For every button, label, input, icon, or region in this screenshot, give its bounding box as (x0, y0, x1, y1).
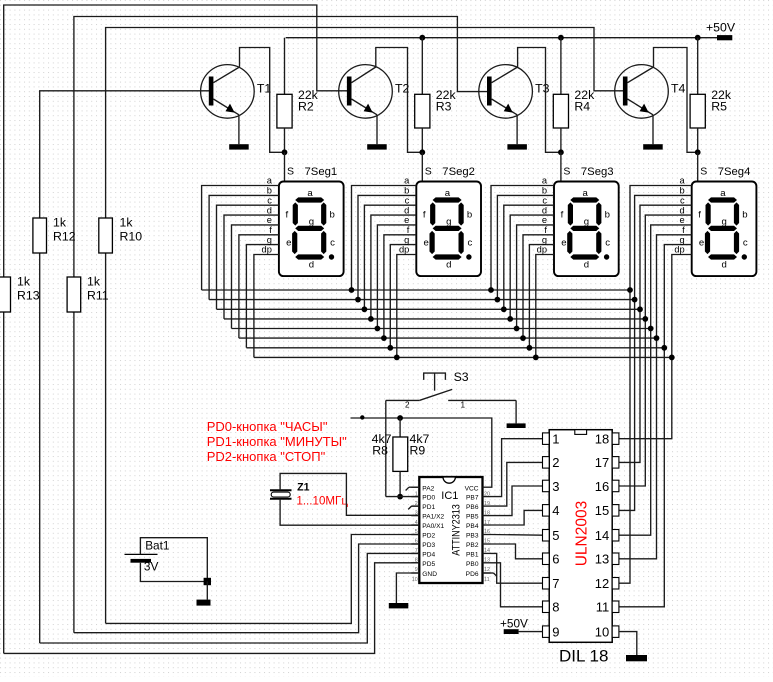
svg-text:5: 5 (552, 528, 559, 543)
svg-text:e: e (404, 215, 409, 225)
node bus dp / 7Seg3 (533, 355, 539, 361)
wire T4 emitter (652, 115, 654, 144)
svg-text:R2: R2 (298, 100, 314, 114)
node bus d / 7Seg2 (368, 316, 374, 322)
wire Bat1 minus (140, 563, 207, 582)
resistor R12 1k (33, 218, 47, 253)
svg-text:7Seg2: 7Seg2 (442, 166, 475, 178)
IC1 pin 16 PB4 (483, 524, 491, 526)
node rail-R4 (558, 35, 564, 41)
ULN pin 9 (543, 626, 550, 638)
svg-text:R13: R13 (17, 289, 40, 303)
svg-text:e: e (680, 215, 685, 225)
wire ULN pin10 to ground (619, 632, 637, 655)
svg-text:7Seg1: 7Seg1 (305, 166, 338, 178)
resistor R11 1k (67, 277, 81, 312)
svg-text:dp: dp (262, 245, 272, 255)
ground IC1 (389, 603, 409, 608)
svg-text:b: b (404, 186, 409, 196)
wire 7Seg1 pin b (209, 195, 279, 299)
crystal Z1 (270, 490, 292, 499)
svg-text:dp: dp (674, 245, 684, 255)
wire 7Seg1 pin dp (254, 255, 279, 358)
wire 7Seg4 pin f to ULN pin 13 (619, 235, 692, 559)
node bus f / 7Seg4 (654, 335, 660, 341)
ground ULN pin10 (626, 655, 647, 661)
svg-text:PB0: PB0 (466, 561, 479, 568)
svg-text:b: b (467, 210, 472, 221)
wire Z1 to PA1/X2 (280, 473, 419, 515)
wire PB4 to ULN pin 4 (491, 510, 543, 525)
svg-text:PD4: PD4 (422, 552, 435, 559)
svg-text:16: 16 (595, 479, 609, 494)
resistor R3 22k (415, 38, 430, 153)
node bus e / 7Seg3 (514, 326, 520, 332)
svg-text:a: a (404, 176, 410, 186)
ground S3 (507, 423, 526, 428)
svg-text:ULN2003: ULN2003 (573, 501, 590, 567)
IC1 pin 6 PD2 (411, 534, 419, 536)
wire 7Seg3 pin c (504, 205, 554, 309)
svg-text:f: f (423, 210, 426, 221)
wire segment bus dp (254, 356, 672, 358)
ULN pin 16 (612, 480, 619, 492)
svg-text:PB6: PB6 (466, 504, 479, 511)
wire 7Seg4 pin g to ULN pin 11 (619, 245, 692, 607)
node rail end dot (360, 415, 364, 419)
svg-text:dp: dp (399, 245, 409, 255)
svg-text:18: 18 (595, 432, 609, 447)
svg-text:S: S (287, 166, 294, 178)
svg-text:d: d (680, 205, 685, 215)
wire segment bus b (209, 299, 634, 301)
wire T1 emitter (238, 115, 240, 144)
svg-text:15: 15 (595, 503, 609, 518)
resistor R10 1k (99, 218, 113, 253)
ULN pin 17 (612, 457, 619, 469)
svg-text:R11: R11 (87, 289, 109, 303)
power +50V ULN pin 9 (519, 631, 543, 633)
wire 7Seg3 pin b (497, 195, 554, 299)
node bus a / 7Seg4 (627, 287, 633, 293)
node bus a / 7Seg2 (349, 287, 355, 293)
svg-text:1: 1 (461, 401, 466, 410)
svg-text:PA2: PA2 (422, 485, 434, 492)
svg-text:e: e (424, 238, 429, 249)
svg-text:11: 11 (596, 600, 610, 615)
svg-text:d: d (404, 205, 409, 215)
svg-text:S3: S3 (454, 370, 469, 384)
svg-text:e: e (267, 215, 272, 225)
svg-text:R12: R12 (53, 230, 76, 244)
svg-text:7Seg3: 7Seg3 (581, 166, 614, 178)
svg-text:T4: T4 (671, 82, 686, 96)
svg-text:11: 11 (484, 577, 490, 583)
wire T2 emitter (376, 115, 378, 144)
svg-text:VCC: VCC (465, 485, 479, 492)
svg-text:a: a (307, 188, 313, 199)
node bus dp / 7Seg4 (669, 355, 675, 361)
IC1 pin 15 PB3 (483, 534, 491, 536)
svg-text:e: e (561, 238, 566, 249)
svg-text:f: f (544, 225, 547, 235)
wire +50V rail (286, 37, 717, 39)
battery Bat1 3V (125, 554, 158, 562)
svg-text:IC1: IC1 (441, 490, 458, 502)
wire PB5 to ULN pin 3 (491, 486, 543, 516)
IC1 pin 7 PD3 (411, 543, 419, 545)
svg-text:PA0/X1: PA0/X1 (422, 523, 444, 530)
ULN pin 6 (543, 553, 550, 565)
svg-text:PD2: PD2 (422, 533, 435, 540)
ground T4 emitter (643, 144, 663, 149)
wire S to 7Seg1 (284, 152, 286, 181)
wire 7Seg1 pin f (239, 235, 279, 338)
svg-text:f: f (561, 210, 564, 221)
svg-text:R4: R4 (574, 100, 590, 114)
svg-text:S: S (425, 166, 432, 178)
wire PD4/R12 to T1 base (40, 91, 209, 643)
resistor R4 22k (553, 38, 568, 153)
node bus c / 7Seg2 (362, 306, 368, 312)
wire T1 collector to S junction (240, 48, 285, 153)
svg-text:6: 6 (552, 552, 559, 567)
wire 7Seg1 pin c (217, 205, 279, 309)
wire 7Seg2 pin g (390, 245, 416, 348)
node bus d / 7Seg3 (507, 316, 513, 322)
wire to ground (206, 582, 208, 600)
wire VCC pullup rail (351, 418, 492, 487)
svg-text:b: b (605, 210, 610, 221)
svg-text:17: 17 (595, 455, 609, 470)
svg-text:f: f (286, 210, 289, 221)
svg-text:+50V: +50V (706, 21, 736, 35)
wire 7Seg4 pin e to ULN pin 14 (619, 225, 692, 535)
ULN pin 8 (543, 601, 550, 613)
wire Z1 to PA0/X1 (280, 499, 419, 525)
wire 7Seg1 pin g (246, 245, 279, 348)
svg-text:c: c (267, 195, 272, 205)
wire S3 contact2 to PD0 (385, 400, 387, 496)
resistor R2 22k (277, 38, 292, 153)
svg-text:ATTINY2313: ATTINY2313 (451, 504, 463, 556)
wire segment bus c (217, 308, 641, 310)
ULN pin 13 (612, 553, 619, 565)
resistor R9 4k7 (393, 418, 408, 497)
svg-text:R9: R9 (410, 443, 426, 457)
resistor R13 1k (0, 277, 11, 312)
svg-text:R8: R8 (372, 443, 388, 457)
wire T3 emitter (516, 115, 518, 144)
svg-text:g: g (722, 217, 727, 228)
IC1 pin 20 VCC (483, 486, 491, 488)
wire 7Seg2 pin b (358, 195, 416, 299)
svg-text:T3: T3 (535, 82, 550, 96)
node bus e / 7Seg4 (648, 326, 654, 332)
svg-text:PD3: PD3 (422, 542, 435, 549)
ULN pin 10 (612, 626, 619, 638)
svg-text:g: g (584, 217, 589, 228)
node bus c / 7Seg3 (501, 306, 507, 312)
wire PB0 to ULN pin 8 (491, 563, 543, 607)
wire 7Seg1 pin e (232, 225, 279, 329)
wire PD2 run (106, 535, 420, 624)
node rail-R3 (419, 35, 425, 41)
node S junction 2 (419, 149, 425, 155)
wire segment bus g (246, 347, 664, 349)
wire 7Seg1 pin a (202, 186, 279, 291)
node S junction 4 (695, 149, 701, 155)
IC1 pin 3 PD1 (411, 505, 419, 507)
transistor T1 (201, 65, 255, 119)
wire 7Seg1 pin d (224, 215, 279, 319)
svg-text:Z1: Z1 (297, 481, 309, 493)
svg-text:1: 1 (552, 432, 559, 447)
ULN pin 7 (543, 578, 550, 590)
wire bus PD5/R13 to T2 base (4, 5, 347, 653)
svg-text:1k: 1k (53, 216, 67, 230)
svg-text:c: c (330, 238, 335, 249)
IC1 pin 12 PB0 (483, 562, 491, 564)
wire bus PD2/R10 to T4 base (106, 28, 624, 624)
7-segment display 7Seg3 (554, 182, 619, 277)
IC1 pin 17 PB5 (483, 515, 491, 517)
ULN pin 3 (543, 480, 550, 492)
svg-text:a: a (445, 188, 451, 199)
svg-text:b: b (330, 210, 335, 221)
svg-text:a: a (720, 188, 726, 199)
svg-text:dp: dp (537, 245, 547, 255)
wire 7Seg3 pin dp (536, 255, 554, 358)
wire 7Seg3 pin g (529, 245, 554, 348)
ground T2 emitter (367, 144, 387, 149)
wire PD0 (386, 496, 420, 498)
node bus f / 7Seg2 (381, 335, 387, 341)
wire bus PD3/R11 to T3 base (74, 17, 487, 633)
wire PB3 to ULN pin 5 (491, 534, 543, 537)
ULN pin 2 (543, 457, 550, 469)
IC1 pin 9 PD5 (411, 562, 419, 564)
wire PA2 stub (409, 486, 419, 488)
svg-text:a: a (542, 176, 548, 186)
IC1 pin 1 PA2 (411, 486, 419, 488)
svg-text:PB7: PB7 (466, 495, 479, 502)
IC1 pin 8 PD4 (411, 552, 419, 554)
svg-text:1k: 1k (17, 275, 31, 289)
svg-text:c: c (743, 238, 748, 249)
svg-text:f: f (269, 225, 272, 235)
transistor T3 (479, 65, 533, 119)
svg-text:d: d (309, 259, 314, 270)
7-segment display 7Seg4 (692, 182, 757, 277)
node bus g / 7Seg4 (661, 345, 667, 351)
wire 7Seg2 pin f (384, 235, 416, 338)
svg-text:+50V: +50V (500, 616, 528, 630)
ground T1 emitter (229, 144, 249, 149)
node bus dp / 7Seg2 (394, 355, 400, 361)
ULN pin 15 (612, 505, 619, 516)
svg-text:g: g (404, 235, 409, 245)
wire 7Seg4 pin dp to ULN pin 18 (619, 255, 692, 439)
IC1 pin 14 PB2 (483, 543, 491, 545)
wire T2 collector to S junction (376, 48, 423, 153)
svg-text:10: 10 (595, 624, 609, 639)
svg-text:12: 12 (484, 567, 490, 573)
ULN pin 1 (543, 433, 550, 445)
svg-text:1k: 1k (120, 216, 134, 230)
wire 7Seg3 pin f (523, 235, 554, 338)
svg-text:PD2-кнопка "СТОП": PD2-кнопка "СТОП" (207, 449, 326, 464)
svg-text:Bat1: Bat1 (145, 538, 169, 552)
wire segment bus f (239, 337, 657, 339)
svg-text:PD6: PD6 (466, 571, 479, 578)
svg-text:e: e (699, 238, 704, 249)
wire 7Seg2 pin c (364, 205, 416, 309)
wire S to 7Seg2 (421, 152, 423, 181)
ULN pin 12 (612, 578, 619, 590)
wire PB7 to ULN pin 1 (491, 439, 543, 497)
ULN pin 11 (612, 601, 619, 613)
svg-text:PB3: PB3 (466, 533, 479, 540)
svg-text:b: b (267, 186, 272, 196)
wire 7Seg4 pin c to ULN pin 17 (619, 205, 692, 462)
wire segment bus e (232, 328, 651, 330)
node S junction 1 (282, 149, 288, 155)
svg-text:e: e (286, 238, 291, 249)
wire Bat1 plus (140, 538, 207, 582)
node R9 top (397, 415, 403, 421)
svg-text:14: 14 (595, 528, 609, 543)
svg-text:9: 9 (552, 624, 559, 639)
svg-text:a: a (680, 176, 686, 186)
ULN pin 14 (612, 530, 619, 542)
wire 7Seg2 pin dp (397, 255, 417, 358)
svg-text:S: S (700, 166, 707, 178)
node bus d / 7Seg4 (642, 316, 648, 322)
wire segment bus a (202, 289, 630, 291)
IC1 pin 11 PD6 (483, 572, 491, 574)
wire S to 7Seg4 (697, 152, 699, 181)
svg-text:g: g (446, 217, 451, 228)
wire S to 7Seg3 (560, 152, 562, 181)
svg-text:f: f (407, 225, 410, 235)
ULN pin 18 (612, 433, 619, 445)
node rail-R5 (695, 35, 701, 41)
svg-text:b: b (680, 186, 685, 196)
svg-text:PD1: PD1 (422, 504, 435, 511)
svg-text:PB2: PB2 (466, 542, 479, 549)
svg-text:7: 7 (552, 576, 559, 591)
svg-text:PD0-кнопка "ЧАСЫ": PD0-кнопка "ЧАСЫ" (207, 419, 328, 434)
IC1 pin 19 PB7 (483, 496, 491, 498)
svg-text:d: d (722, 259, 727, 270)
node bus g / 7Seg2 (387, 345, 393, 351)
svg-text:DIL 18: DIL 18 (559, 647, 608, 666)
node bus c / 7Seg4 (637, 306, 643, 312)
svg-text:g: g (680, 235, 685, 245)
wire segment bus d (224, 318, 645, 320)
svg-text:d: d (446, 259, 451, 270)
wire 7Seg2 pin d (371, 215, 416, 319)
svg-text:g: g (542, 235, 547, 245)
wire IC1 GND (396, 573, 419, 603)
wire PB6 to ULN pin 2 (491, 462, 543, 506)
svg-text:c: c (405, 195, 410, 205)
svg-text:d: d (267, 205, 272, 215)
svg-text:a: a (583, 188, 589, 199)
svg-text:R10: R10 (120, 230, 143, 244)
svg-text:2: 2 (552, 455, 559, 470)
svg-text:d: d (542, 205, 547, 215)
op-amp/IC U1: IC1 ATTINY2313 (419, 477, 482, 583)
node bus f / 7Seg3 (520, 335, 526, 341)
switch S3 (386, 373, 516, 400)
IC1 pin 18 PB6 (483, 505, 491, 507)
wire PD4 run (40, 553, 420, 643)
svg-text:PB1: PB1 (466, 552, 479, 559)
node S junction 3 (558, 149, 564, 155)
node bus b / 7Seg4 (632, 297, 638, 303)
wire T3 collector to S junction (518, 48, 561, 153)
wire 7Seg3 pin d (510, 215, 554, 319)
svg-text:1...10МГц: 1...10МГц (296, 495, 348, 508)
wire 7Seg3 pin e (517, 225, 554, 329)
wire PD1 stub (412, 505, 420, 507)
svg-text:R3: R3 (436, 100, 452, 114)
node bus b / 7Seg3 (495, 297, 501, 303)
svg-text:c: c (468, 238, 473, 249)
wire 7Seg2 pin a (352, 186, 417, 291)
svg-text:13: 13 (595, 552, 609, 567)
svg-text:3: 3 (552, 479, 559, 494)
7-segment display 7Seg2 (416, 182, 481, 277)
node bus a / 7Seg3 (488, 287, 494, 293)
node bus b / 7Seg2 (355, 297, 361, 303)
wire T4 collector to S junction (654, 48, 698, 153)
wire PD6 stub (483, 572, 494, 574)
svg-text:S: S (563, 166, 570, 178)
svg-text:b: b (542, 186, 547, 196)
7-segment display 7Seg1 (279, 182, 344, 277)
svg-text:d: d (584, 259, 589, 270)
wire PD3 run (74, 544, 419, 633)
svg-text:g: g (309, 217, 314, 228)
ground T3 emitter (507, 144, 527, 149)
IC1 pin 4 PA1/X2 (411, 515, 419, 517)
svg-text:GND: GND (422, 571, 437, 578)
ULN pin 4 (543, 505, 550, 516)
wire 7Seg4 pin b to ULN pin 15 (619, 195, 692, 510)
ULN pin 5 (543, 530, 550, 542)
svg-text:f: f (682, 225, 685, 235)
svg-text:4: 4 (552, 503, 559, 518)
svg-text:f: f (698, 210, 701, 221)
wire PD5 run (4, 563, 420, 654)
svg-text:R5: R5 (711, 100, 727, 114)
wire 7Seg4 pin a to ULN pin 12 (619, 186, 692, 584)
IC1 pin 2 PD0 (411, 496, 419, 498)
svg-text:2: 2 (405, 401, 410, 410)
svg-text:3V: 3V (144, 560, 159, 574)
svg-text:b: b (742, 210, 747, 221)
svg-text:PD1-кнопка "МИНУТЫ": PD1-кнопка "МИНУТЫ" (207, 434, 347, 449)
svg-text:c: c (542, 195, 547, 205)
svg-text:a: a (267, 176, 273, 186)
wire 7Seg4 pin d to ULN pin 16 (619, 215, 692, 486)
svg-text:PB5: PB5 (466, 514, 479, 521)
power +50V top (717, 35, 732, 40)
wire S3 contact1 to ground (515, 400, 517, 423)
